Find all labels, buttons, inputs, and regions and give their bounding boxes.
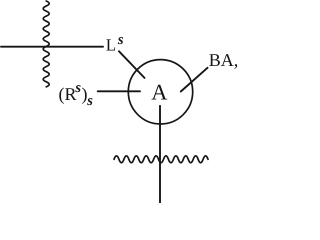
svg-text:BA,: BA, [209,50,239,70]
svg-text:L: L [106,36,116,55]
svg-text:A: A [151,79,167,104]
svg-text:(R: (R [59,84,77,104]
svg-text:s: s [117,32,124,48]
svg-text:s: s [86,93,93,109]
svg-text:s: s [74,80,81,96]
